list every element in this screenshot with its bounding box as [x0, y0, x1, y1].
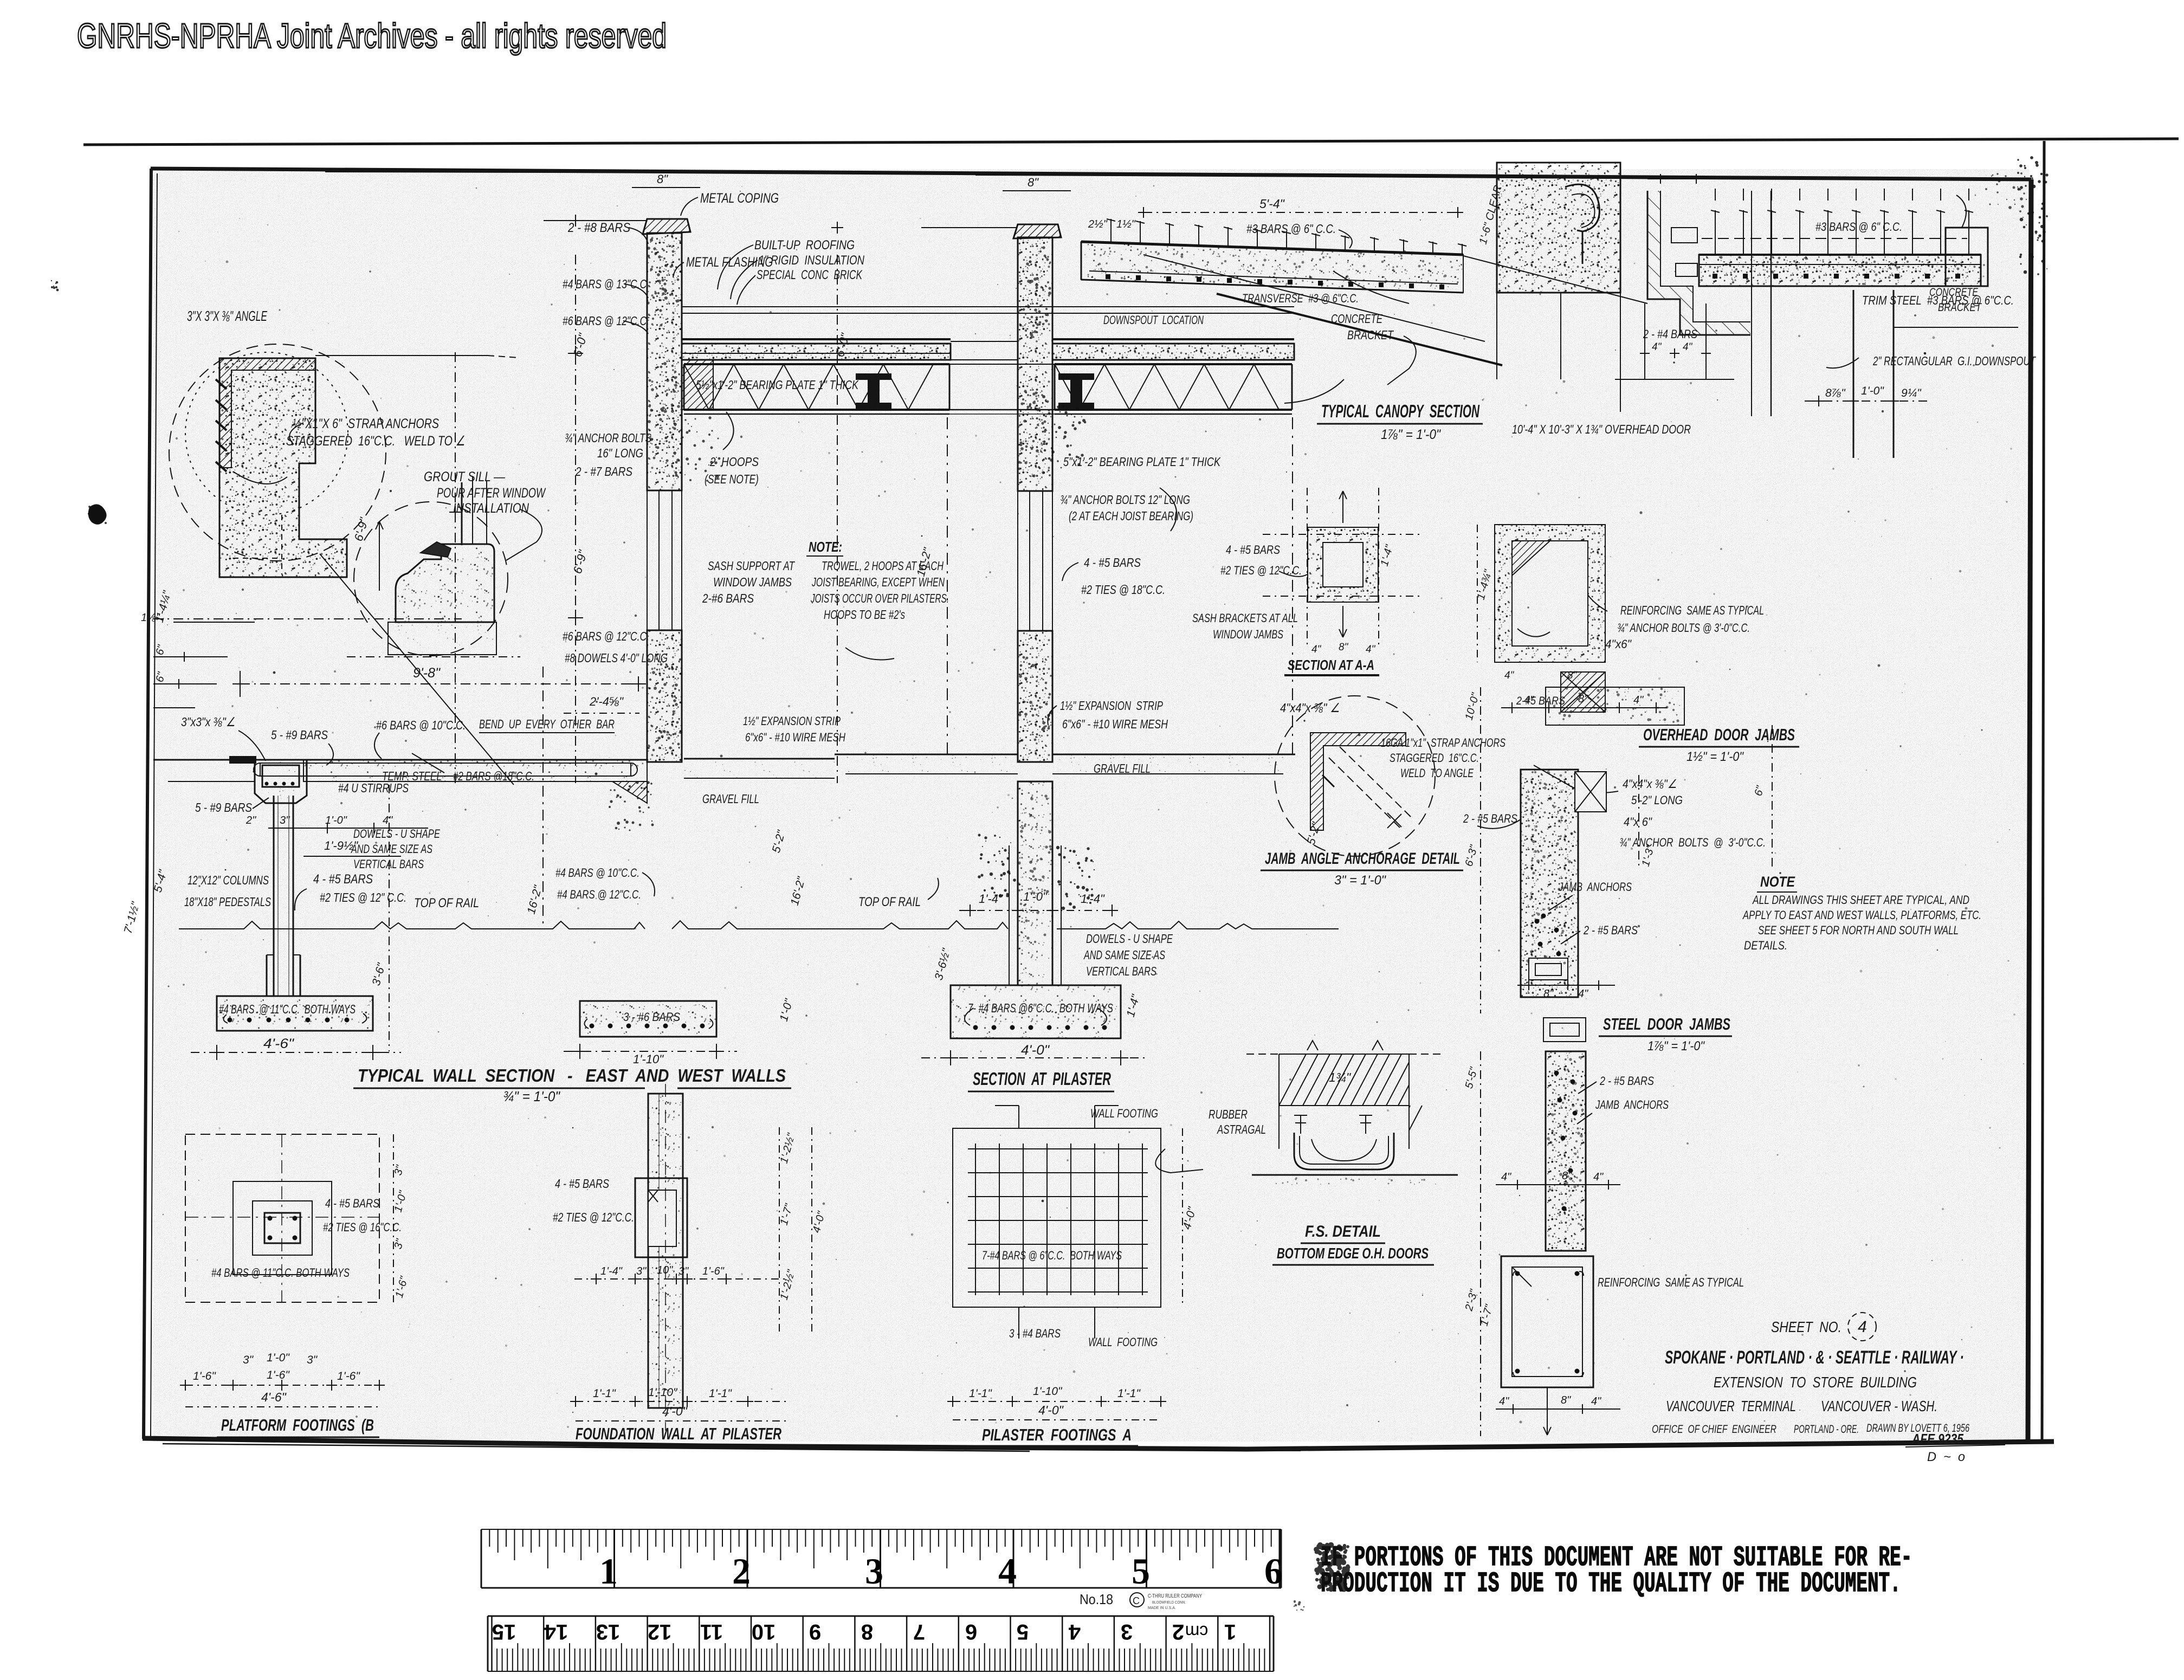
svg-text:3: 3	[865, 1550, 883, 1592]
left wall vertical dim line	[575, 255, 576, 783]
foundation wall column	[648, 1094, 683, 1408]
corner detail reference circle (outer)	[169, 344, 386, 561]
svg-text:4: 4	[1068, 1620, 1081, 1644]
overhead jamb angle box with X	[1575, 772, 1606, 812]
jamb angle steel angle	[1310, 733, 1406, 830]
steel jamb vertical dim	[1480, 1051, 1481, 1436]
jamb angle dashed braces	[1329, 758, 1401, 829]
sheet outer top line	[83, 139, 2179, 145]
svg-text:PRODUCTION IT IS DUE TO THE QU: PRODUCTION IT IS DUE TO THE QUALITY OF T…	[1321, 1568, 1901, 1600]
roof deck lines across truss gap	[951, 341, 1018, 342]
door jamb section rect detail	[1495, 525, 1605, 662]
grout sill bottom dim line	[347, 656, 520, 657]
wall mottling jamb columns	[1525, 771, 1573, 965]
svg-text:2: 2	[732, 1550, 751, 1592]
mid wall concrete column lower	[1018, 631, 1052, 762]
overhead door jamb header dims	[1507, 707, 1517, 708]
steel jamb dims mid	[1496, 1184, 1620, 1185]
corner detail leader to wall base	[320, 554, 514, 785]
overhead jamb vertical dim line	[1480, 687, 1481, 1013]
grout sill window frame lines	[461, 482, 463, 545]
foundation wall bottom dims	[576, 1401, 787, 1402]
top-right corner scan smudge	[2017, 156, 2049, 275]
grout sill reference circle	[354, 502, 508, 656]
platform footing plan outer dashed square	[185, 1134, 379, 1302]
svg-text:1: 1	[1224, 1620, 1236, 1644]
left margin ink blot	[89, 505, 106, 524]
mid footing dim 4-0	[921, 1057, 1149, 1058]
svg-text:14: 14	[544, 1620, 568, 1644]
mid canopy I-beam joist	[1059, 374, 1094, 409]
fs detail ground line	[1252, 1174, 1458, 1176]
sheet bottom border	[143, 1438, 2054, 1449]
corner strap-anchor detail: concrete section	[219, 358, 347, 577]
overhead jamb anchor dots	[1535, 919, 1539, 923]
svg-text:4: 4	[998, 1550, 1017, 1592]
svg-text:8: 8	[861, 1620, 873, 1644]
platform slab top line	[230, 759, 647, 761]
platform footing plan inner square	[253, 1201, 312, 1255]
platform pedestal	[266, 955, 268, 996]
svg-text:7: 7	[913, 1620, 925, 1644]
corner detail reference circle (inner)	[185, 352, 348, 515]
svg-text:9: 9	[809, 1620, 821, 1644]
corner detail inner dashed line	[233, 558, 282, 559]
wall mottling left wall	[647, 238, 681, 326]
svg-text:13: 13	[596, 1620, 621, 1644]
canopy slab body	[1081, 242, 1463, 293]
corner detail strap anchor ticks	[216, 379, 227, 389]
ground line continues	[672, 921, 835, 929]
more scan pepper noise	[163, 195, 2015, 1425]
mid ground jagged line	[835, 921, 1008, 929]
jamb plan channel rects	[1671, 228, 1697, 243]
left wall footing (wall base)	[580, 1001, 716, 1037]
svg-text:10: 10	[752, 1620, 776, 1644]
door jamb section inner face	[1512, 541, 1588, 646]
mid footing dims above	[959, 910, 1120, 911]
foundation wall center dash	[665, 1084, 666, 1431]
canopy right concrete block	[1497, 163, 1620, 293]
mid wall dim verticals left	[837, 255, 838, 783]
pilaster footing rebar grid	[975, 1143, 976, 1295]
overhead door jamb plan walls	[1647, 191, 1750, 335]
grout sill up arrow	[379, 521, 380, 591]
pilaster section A-A inner face	[1323, 542, 1363, 587]
sheet right outer border	[2042, 141, 2044, 1443]
overhead jamb right dim lines	[1772, 725, 1773, 867]
extra scan noise	[168, 185, 2024, 1428]
svg-text:6: 6	[965, 1620, 977, 1644]
canopy stirrup ticks	[1110, 219, 1112, 244]
mid floor slab lines	[835, 754, 1018, 755]
platform footing	[217, 996, 373, 1031]
overhead jamb column upper	[1521, 770, 1578, 997]
column line under left truss end	[947, 417, 948, 754]
platform slab body	[303, 760, 647, 781]
svg-text:11: 11	[700, 1620, 723, 1644]
platform edge beam section	[255, 760, 307, 803]
left canopy I-beam joist	[856, 374, 891, 409]
gutter leaders	[1956, 195, 1966, 228]
mid wall concrete column upper	[1018, 237, 1052, 491]
strap anchor leader curve	[289, 423, 303, 444]
svg-text:12: 12	[648, 1620, 672, 1644]
mid wall dowels into footing	[1009, 845, 1010, 985]
downspout double line	[1853, 290, 1855, 458]
grout sill dark cap	[421, 542, 451, 557]
canopy bracket elevation right	[1644, 303, 1645, 379]
platform footing plan pier square	[264, 1213, 300, 1243]
pilaster footing plan outline	[953, 1128, 1161, 1307]
platform dim verticals	[389, 785, 390, 1051]
svg-text:C: C	[1133, 1595, 1140, 1606]
inch ruler outline	[481, 1529, 482, 1588]
mid canopy slab	[1052, 344, 1294, 360]
svg-text:cm: cm	[1185, 1622, 1209, 1642]
gutter stirrup ticks	[1715, 210, 1716, 255]
grout sill leader	[506, 509, 542, 560]
left wall canopy open-web truss	[684, 363, 949, 365]
stamp stray mark	[1294, 1600, 1305, 1611]
left wall canopy slab	[682, 344, 951, 360]
reinforcing box arrow down	[1547, 1387, 1548, 1435]
inch ruler ticks	[481, 1529, 482, 1588]
dim line mid wall top	[921, 227, 1017, 228]
platform column	[273, 796, 275, 996]
svg-text:No.18: No.18	[1080, 1591, 1113, 1607]
gutter slab body	[1699, 255, 1981, 286]
sheet left border	[144, 169, 151, 1439]
mid wall window zone	[1018, 491, 1052, 631]
left wall window zone	[647, 490, 682, 630]
jamb plan hatch strip	[1647, 191, 1750, 335]
left wall anchor-bolt zone speck	[673, 416, 722, 482]
platform footing bars	[228, 1018, 232, 1022]
gutter rebar squares	[1713, 274, 1717, 279]
platform footing dim 4-6	[191, 1052, 401, 1053]
foundation wall pilaster box	[635, 1178, 687, 1257]
fs detail astragal profile	[1294, 1133, 1394, 1169]
platform approach slab left of beam	[153, 759, 230, 761]
gutter right box	[1946, 228, 1988, 286]
jamb angle anchorage circle	[1275, 696, 1435, 856]
steel jamb anchor dots lower	[1554, 1071, 1559, 1075]
mid wall foundation below floor	[1018, 781, 1052, 985]
canopy long leader lines	[1143, 255, 1485, 341]
svg-text:BLOOMFIELD CONN.: BLOOMFIELD CONN.	[1152, 1601, 1186, 1605]
canopy slab top line	[1081, 242, 1463, 255]
corner detail steel angle (hatched)	[219, 358, 315, 468]
svg-text:6: 6	[1264, 1550, 1283, 1592]
vertical line below right canopy block	[1560, 293, 1561, 379]
platform 9-8 dim	[240, 683, 639, 684]
grout sill concrete profile	[396, 544, 494, 622]
stamp over-inked blob	[1314, 1542, 1350, 1592]
svg-text:MADE IN U.S.A.: MADE IN U.S.A.	[1148, 1606, 1176, 1610]
mid T footing	[951, 985, 1121, 1038]
steel jamb bottom dims	[1496, 1408, 1620, 1410]
sheet main top border	[151, 169, 2031, 179]
door jamb section hook bar	[1517, 629, 1550, 637]
canopy left end line	[1081, 242, 1082, 280]
dim line upper left margin	[153, 618, 462, 619]
pilaster section A-A up arrow	[1342, 491, 1343, 523]
steel jamb column lower	[1546, 1051, 1586, 1251]
left wall footing dims	[564, 1051, 737, 1052]
platform haunch hatch at wall	[612, 781, 647, 803]
door jamb section angle piece	[1512, 541, 1550, 576]
c-thru logo	[1130, 1593, 1144, 1607]
left wall concrete column lower	[647, 630, 682, 762]
svg-text:5: 5	[1017, 1620, 1029, 1644]
pilaster section A-A outer ring	[1308, 527, 1378, 602]
platform footing plan center dashes	[185, 1217, 379, 1218]
fs detail break marks top	[1307, 1041, 1318, 1050]
truss chords continuous across gap	[684, 364, 1292, 365]
left margin small blot	[51, 280, 59, 292]
svg-text:3: 3	[1121, 1620, 1133, 1644]
foundation wall dim row mid	[574, 1278, 786, 1280]
ground line left section	[179, 921, 645, 929]
platform plan dim line	[185, 1385, 379, 1386]
svg-text:D ~ o: D ~ o	[1927, 1450, 1965, 1464]
svg-text:5: 5	[1132, 1550, 1150, 1592]
sheet no circle	[1848, 1313, 1876, 1341]
scan noise specks	[167, 186, 1968, 1423]
canopy slab rebar line	[1089, 271, 1458, 284]
vertical dash line center-left	[542, 667, 544, 928]
floor slab right of left wall	[684, 758, 835, 760]
left detail top edge line	[315, 355, 488, 356]
reinforcing box detail	[1501, 1256, 1593, 1387]
pilaster footing bottom dims	[953, 1401, 1161, 1402]
door track vertical right of jamb plan	[1771, 191, 1772, 416]
left wall: metal coping cap	[643, 219, 690, 234]
platform footing plan corner dots	[268, 1216, 272, 1220]
reproduction stamp line 2	[1321, 1568, 1901, 1600]
mid wall coping cap	[1013, 224, 1061, 238]
mid footing hook bars	[965, 1008, 973, 1025]
svg-text:GNRHS-NPRHA Joint Archives - a: GNRHS-NPRHA Joint Archives - all rights …	[77, 16, 667, 55]
left wall leader curves top	[681, 197, 698, 216]
pilaster footing wall strip verticals	[1018, 1106, 1019, 1128]
left wall dim ticks	[568, 353, 583, 354]
roofing lines above trusses	[682, 306, 1294, 307]
overhead door jamb header strip	[1546, 687, 1684, 725]
cm ruler mm ticks	[1269, 1616, 1271, 1671]
left wall dim 8in top	[632, 187, 700, 188]
platform dims under beam	[271, 828, 428, 829]
vertical dim line left of wall	[455, 352, 456, 783]
fs detail bolt tees	[1294, 1115, 1307, 1134]
mid wall dim 8in top	[1003, 190, 1071, 191]
canopy rebar squares	[1106, 274, 1110, 279]
jamb plan dim marks	[1647, 178, 1734, 179]
overhead jamb channel stack	[1529, 958, 1568, 980]
grout sill base block	[388, 622, 496, 655]
door jamb X-braced box below	[1561, 672, 1605, 712]
svg-text:2: 2	[1172, 1620, 1184, 1644]
svg-text:15: 15	[492, 1620, 516, 1644]
canopy right block bottom ticks	[1496, 293, 1497, 379]
border roughness overlays	[325, 171, 759, 172]
svg-text:C-THRU RULER COMPANY: C-THRU RULER COMPANY	[1148, 1593, 1202, 1599]
sheet right border	[2028, 179, 2031, 1442]
steel door jamb channel top	[1543, 1018, 1586, 1042]
left wall concrete column upper	[647, 233, 682, 490]
left margin short dim lines	[153, 656, 228, 657]
svg-text:1: 1	[599, 1550, 618, 1592]
slab rebar slot (hooked bar)	[260, 763, 631, 776]
canopy 5-4 dim	[1143, 212, 1458, 213]
canopy drain slope line	[1217, 294, 1502, 365]
fs detail hatch band	[1279, 1054, 1306, 1106]
canopy slab bottom line	[1081, 280, 1463, 293]
long leader from canopy to jamb	[1463, 256, 1647, 303]
fs detail door panel outline	[1279, 1054, 1409, 1055]
mid canopy bearing speck	[1042, 395, 1086, 471]
downspout dim lines	[1894, 327, 2018, 328]
dim line wall top-left	[544, 220, 646, 221]
left canopy bearing hatch at wall	[682, 360, 713, 410]
mid canopy truss	[1055, 363, 1292, 365]
jamb header blob	[1549, 687, 1679, 723]
pilaster section A-A dim lines	[1263, 534, 1420, 535]
canopy hook bar (J-bar)	[1565, 184, 1599, 264]
column line under mid truss end	[1292, 417, 1293, 754]
reproduction stamp line 1	[1321, 1542, 1912, 1574]
platform slab left angle tip	[230, 757, 256, 763]
platform footing plan middle square	[233, 1181, 332, 1275]
cm ruler outline	[488, 1616, 1274, 1617]
stray leader curves middle	[845, 648, 894, 660]
gutter top bar line	[1702, 238, 1967, 239]
wall mottling mid wall	[1019, 243, 1051, 339]
overhead jamb dims 8-4	[1517, 985, 1615, 986]
